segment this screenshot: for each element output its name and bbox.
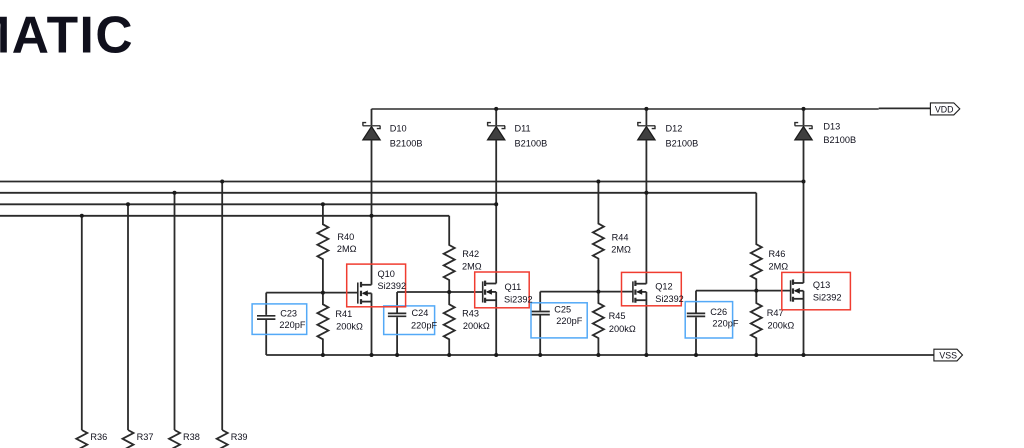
svg-text:R38: R38	[183, 432, 200, 442]
resistor R44	[593, 182, 631, 292]
VSS flag	[934, 349, 963, 361]
svg-text:2MΩ: 2MΩ	[611, 245, 631, 255]
junction net2 D12	[644, 191, 648, 195]
wire D11 anode to Q11 drain	[495, 140, 497, 284]
junction VSS R45	[596, 353, 600, 357]
svg-text:R42: R42	[462, 249, 479, 259]
svg-text:D10: D10	[390, 123, 407, 133]
capacitor C23	[252, 293, 307, 355]
junction net3 R40	[321, 202, 325, 206]
svg-text:2MΩ: 2MΩ	[769, 262, 789, 272]
svg-text:C26: C26	[710, 307, 727, 317]
junction net4 D10	[370, 214, 374, 218]
svg-text:220pF: 220pF	[712, 319, 738, 329]
wire gate line stage 2	[397, 291, 483, 293]
wire Q13 source to VSS	[803, 291, 805, 355]
wire gate line stage 3	[540, 291, 633, 293]
resistor R47	[751, 291, 795, 355]
wire to R38	[174, 193, 176, 430]
svg-text:B2100B: B2100B	[823, 135, 856, 145]
svg-text:D13: D13	[823, 121, 840, 131]
diode D13	[795, 109, 856, 145]
wire gate line stage 4	[696, 290, 791, 292]
junction net2 R38	[173, 191, 177, 195]
svg-text:R45: R45	[609, 311, 626, 321]
junction VSS C25	[538, 353, 542, 357]
svg-text:Si2392: Si2392	[378, 281, 407, 291]
svg-text:R46: R46	[769, 249, 786, 259]
resistor R43	[444, 292, 490, 355]
junction net1 R39	[220, 180, 224, 184]
svg-text:D11: D11	[515, 123, 531, 133]
junction VDD D12	[644, 107, 648, 111]
svg-text:200kΩ: 200kΩ	[463, 321, 490, 331]
svg-text:D12: D12	[666, 123, 683, 133]
resistor R42	[444, 216, 482, 292]
svg-text:220pF: 220pF	[279, 320, 305, 330]
diode D11	[487, 109, 547, 148]
svg-text:Si2392: Si2392	[504, 295, 533, 305]
transistor Q13	[782, 272, 851, 309]
junction gate4 R47	[754, 289, 758, 293]
junction net1 R44	[596, 180, 600, 184]
svg-text:200kΩ: 200kΩ	[336, 321, 363, 331]
svg-text:Q13: Q13	[813, 280, 830, 290]
junction gate3 R45	[596, 290, 600, 294]
svg-text:R40: R40	[337, 232, 354, 242]
svg-text:VSS: VSS	[939, 350, 957, 360]
svg-text:220pF: 220pF	[556, 316, 582, 326]
svg-text:C23: C23	[280, 309, 297, 319]
svg-text:C24: C24	[412, 308, 429, 318]
wire D10 anode to Q10 drain	[371, 140, 373, 285]
svg-text:220pF: 220pF	[411, 320, 437, 330]
junction VSS Q13	[802, 353, 806, 357]
junction net4 R36	[80, 214, 84, 218]
junction gate2 R43	[447, 290, 451, 294]
svg-text:Si2392: Si2392	[813, 292, 842, 302]
resistor R46	[751, 193, 788, 291]
resistor R37	[123, 430, 154, 448]
capacitor C25	[531, 292, 587, 355]
bus wire net4	[0, 215, 449, 217]
svg-text:Si2392: Si2392	[655, 294, 684, 304]
svg-text:2MΩ: 2MΩ	[337, 244, 357, 254]
wire Q10 source to VSS	[371, 293, 373, 355]
wire to R36	[81, 216, 83, 430]
junction VSS Q11	[494, 353, 498, 357]
svg-text:R36: R36	[90, 432, 107, 442]
svg-text:R43: R43	[462, 309, 479, 319]
junction VDD D11	[494, 107, 498, 111]
svg-text:R39: R39	[231, 432, 248, 442]
junction VSS R47	[754, 353, 758, 357]
resistor R38	[169, 430, 200, 448]
wire D12 anode to Q12 drain	[645, 140, 647, 284]
svg-text:Q10: Q10	[378, 269, 395, 279]
wire D13 anode to Q13 drain	[803, 140, 805, 283]
svg-text:B2100B: B2100B	[390, 138, 423, 148]
junction VSS Q12	[644, 353, 648, 357]
svg-text:B2100B: B2100B	[666, 138, 699, 148]
resistor R39	[217, 430, 248, 448]
junction VSS C26	[694, 353, 698, 357]
bus wire net1	[0, 181, 804, 183]
svg-text:C25: C25	[554, 304, 571, 314]
diode D10	[363, 109, 423, 148]
junction VSS C24	[395, 353, 399, 357]
resistor R41	[317, 293, 363, 355]
junction net1 D13	[802, 180, 806, 184]
wire to R37	[127, 204, 129, 430]
svg-text:R41: R41	[335, 309, 352, 319]
svg-text:B2100B: B2100B	[515, 138, 548, 148]
svg-text:R44: R44	[612, 233, 629, 243]
transistor Q11	[475, 272, 533, 308]
junction VDD D13	[802, 107, 806, 111]
wire Q11 source to VSS	[495, 292, 497, 355]
svg-text:R37: R37	[137, 432, 154, 442]
wire Q12 source to VSS	[645, 292, 647, 355]
VDD rail wire	[372, 108, 879, 110]
capacitor C24	[384, 292, 438, 355]
svg-text:2MΩ: 2MΩ	[462, 262, 482, 272]
svg-text:200kΩ: 200kΩ	[609, 324, 636, 334]
junction VSS Q10	[370, 353, 374, 357]
junction VSS R41	[321, 353, 325, 357]
wire gate line stage 1	[266, 292, 358, 294]
svg-text:200kΩ: 200kΩ	[768, 321, 795, 331]
resistor R40	[317, 204, 356, 292]
VDD flag	[930, 103, 959, 115]
junction net3 D11	[494, 202, 498, 206]
transistor Q12	[622, 272, 684, 305]
svg-text:Q12: Q12	[655, 282, 672, 292]
bus wire net3	[0, 203, 496, 205]
junction net3 R37	[126, 202, 130, 206]
svg-text:Q11: Q11	[505, 282, 522, 292]
wire to R39	[221, 182, 223, 431]
resistor R36	[76, 430, 107, 448]
junction VSS R43	[447, 353, 451, 357]
resistor R45	[593, 292, 636, 355]
VSS rail wire	[266, 354, 934, 356]
capacitor C26	[685, 291, 739, 355]
svg-text:MATIC: MATIC	[0, 5, 134, 63]
bus wire net2	[0, 192, 756, 194]
transistor Q10	[347, 264, 406, 307]
junction gate1 R41	[321, 291, 325, 295]
diode D12	[638, 109, 699, 148]
svg-text:VDD: VDD	[935, 104, 954, 114]
